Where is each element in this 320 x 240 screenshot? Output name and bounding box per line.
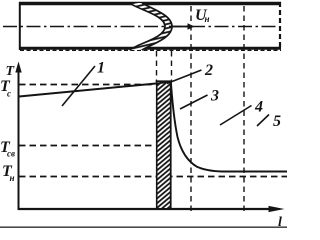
channel right edge (dashed) — [279, 2, 281, 50]
svg-text:5: 5 — [273, 113, 281, 130]
channel bottom wall hatch fringe — [20, 49, 281, 51]
leader line 4 — [220, 106, 252, 126]
channel top wall — [19, 2, 281, 6]
svg-text:н: н — [205, 14, 210, 24]
svg-text:2: 2 — [204, 62, 213, 79]
vertical dashed line at x=191 (full height) — [190, 6, 192, 213]
channel centerline (dash-dot) — [3, 26, 278, 28]
crescent outer curve — [142, 3, 172, 50]
crescent inner curve — [130, 3, 166, 50]
band left edge — [156, 81, 158, 208]
svg-text:с: с — [7, 89, 11, 99]
band right edge — [170, 81, 172, 208]
dashed level line Tn — [19, 176, 287, 178]
svg-text:4: 4 — [254, 99, 263, 116]
dashed level line Tsv — [19, 145, 154, 147]
leader line 2 — [167, 70, 202, 84]
bottom rule — [0, 226, 287, 228]
l axis (x-axis) — [18, 208, 273, 210]
rising temperature curve (left) — [19, 84, 156, 97]
svg-text:1: 1 — [97, 60, 105, 77]
flow arrow on centerline — [169, 26, 188, 28]
dashed level line Tc — [19, 84, 154, 86]
vertical dashed line at x=244 (full height) — [243, 6, 245, 213]
channel bottom wall — [19, 47, 281, 50]
decaying temperature curve (right) — [171, 81, 287, 172]
svg-text:l: l — [278, 215, 282, 228]
band top edge — [156, 80, 172, 82]
velocity-profile crescent (hatched) — [130, 3, 173, 50]
hatched vertical band (weld zone) — [157, 82, 171, 209]
vertical dashed line at x=156.5 (above band) — [156, 51, 158, 81]
svg-text:T: T — [6, 64, 16, 79]
leader line 3 — [180, 95, 208, 109]
svg-text:св: св — [7, 149, 15, 159]
channel left edge — [19, 2, 21, 50]
leader line 1 — [62, 66, 95, 106]
T axis (y-axis) — [18, 68, 20, 210]
svg-text:н: н — [10, 173, 15, 183]
svg-text:3: 3 — [210, 88, 219, 105]
leader line 5 — [257, 115, 269, 127]
vertical dashed line at x=171.5 (above band) — [171, 51, 173, 81]
curve continuation across band top — [157, 81, 171, 83]
